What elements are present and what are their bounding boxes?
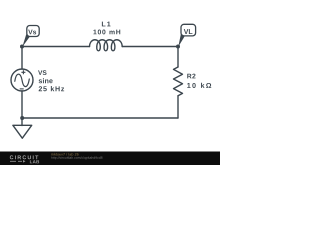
junction node at Vs (20, 45, 24, 49)
inductor L1 (90, 40, 123, 51)
wire right branch lower (177, 96, 179, 118)
value sine (39, 78, 53, 83)
label R2 (187, 74, 195, 79)
sine symbol inside VS (15, 74, 29, 86)
junction node at ground (20, 116, 24, 120)
label VS (38, 70, 47, 75)
ground (13, 118, 32, 138)
wire inductor to top-right corner (122, 46, 178, 48)
junction node at VL (176, 45, 180, 49)
bottom wire (22, 117, 178, 119)
value 10 kOhm (187, 83, 211, 88)
value 25 kHz (39, 86, 64, 91)
watermark bar (0, 152, 220, 166)
wire top-left to inductor (22, 46, 90, 48)
minus sign of VS (20, 88, 24, 90)
wire left branch upper (21, 47, 23, 70)
CircuitLab logo text (10, 155, 39, 159)
watermark line 1 (51, 153, 78, 156)
watermark line 2 (51, 156, 102, 159)
value 100 mH (93, 30, 120, 35)
label L1 (102, 22, 111, 27)
wire left branch lower (21, 91, 23, 118)
voltage source VS circle (11, 69, 33, 91)
node label Vs (22, 26, 39, 47)
node label VL (178, 24, 195, 46)
wire right branch upper (177, 47, 179, 68)
resistor R2 (174, 67, 183, 96)
plus sign of VS (21, 70, 25, 74)
